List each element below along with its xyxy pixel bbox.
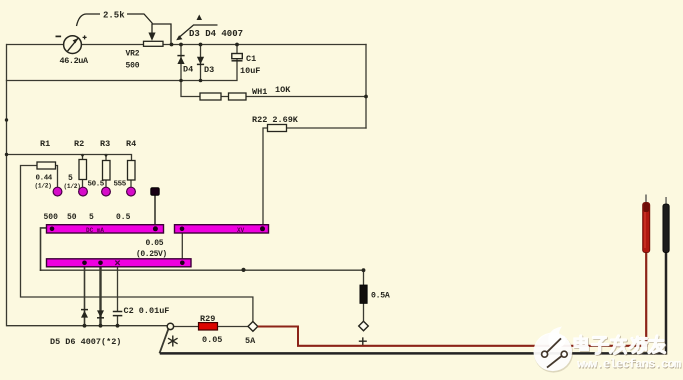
wire fuse horizontal line	[41, 269, 364, 271]
svg-text:0.5A: 0.5A	[371, 292, 390, 301]
wire fuse vertical stubs	[363, 270, 365, 321]
switch wafer bar2 V	[175, 225, 269, 234]
switch wafer bar1 DCmA	[47, 225, 164, 234]
node C2 bottom	[116, 324, 120, 328]
svg-text:50.5: 50.5	[88, 181, 105, 189]
svg-text:50: 50	[67, 213, 77, 222]
svg-text:VR2: VR2	[126, 50, 140, 59]
svg-text:R4: R4	[126, 139, 136, 149]
wire D6 drop	[99, 267, 101, 326]
svg-text:R1: R1	[40, 139, 50, 149]
wire red jumper diamond to red bus	[258, 327, 298, 346]
node WH1 right	[364, 95, 368, 99]
pad switch common (black)	[151, 188, 159, 196]
node junction D4 top	[179, 43, 183, 47]
svg-text:D3 D4 4007: D3 D4 4007	[189, 29, 243, 39]
diode D5	[81, 310, 88, 318]
wire D5 drop	[84, 267, 86, 326]
node junction C1 top	[235, 43, 239, 47]
resistor R3	[88, 139, 111, 189]
wire R network top	[7, 155, 132, 161]
wire R29 line	[174, 326, 248, 328]
wire R3 stubs	[105, 155, 107, 188]
wire bar2 to bar3 drop	[181, 233, 183, 259]
pad R4 terminal	[127, 187, 136, 196]
wire bar1 left to fuse line	[41, 228, 47, 270]
watermark logo circle	[534, 327, 574, 373]
svg-text:0.05: 0.05	[146, 239, 164, 248]
capacitor C2	[113, 306, 170, 316]
resistor R1	[35, 139, 56, 190]
label 2.5k callout	[77, 11, 153, 27]
wire C2 drop	[117, 267, 119, 326]
svg-text:DC mA: DC mA	[86, 227, 104, 234]
node D6 bottom	[99, 324, 103, 328]
svg-text:46.2uA: 46.2uA	[60, 56, 90, 66]
wire left bus vertical to wiper	[7, 45, 168, 326]
svg-text:555: 555	[114, 181, 127, 189]
svg-text:0.5: 0.5	[116, 213, 131, 222]
wire R22 line	[263, 128, 366, 225]
wire right vertical	[365, 45, 367, 129]
diode D3	[197, 57, 214, 75]
resistor WH1 (two boxes) 10K	[200, 85, 291, 100]
wire R1 left to diamond	[21, 166, 253, 322]
wire R1 right	[56, 166, 58, 188]
svg-text:1OK: 1OK	[275, 85, 291, 95]
switch wafer bar3	[47, 259, 192, 267]
pad R3 terminal	[102, 187, 111, 196]
svg-text:0.05: 0.05	[202, 335, 222, 345]
wire wiper lever diagonal	[160, 329, 169, 353]
resistor R29 0.05 (red)	[199, 314, 223, 345]
label plus terminal	[359, 337, 367, 345]
svg-text:0.44: 0.44	[36, 175, 53, 183]
svg-text:XV: XV	[237, 227, 245, 234]
diode D6	[97, 310, 104, 317]
svg-text:C2 0.01uF: C2 0.01uF	[124, 306, 170, 316]
svg-text:5: 5	[89, 213, 94, 222]
node junction D3 bottom	[199, 79, 203, 83]
svg-text:500: 500	[126, 62, 140, 71]
svg-text:WH1: WH1	[252, 87, 267, 97]
svg-text:(0.25V): (0.25V)	[136, 250, 167, 259]
svg-text:D4: D4	[183, 65, 193, 75]
potentiometer VR2 500	[126, 24, 172, 71]
wire D4 branch	[180, 45, 182, 81]
label 0.05 (0.25V)	[136, 239, 167, 259]
svg-text:R29: R29	[200, 314, 215, 324]
svg-text:R2: R2	[74, 139, 84, 149]
connector diamond 5A	[245, 322, 258, 347]
capacitor C1 10uF	[232, 54, 261, 77]
wire D3 branch	[200, 45, 202, 81]
meter M 46.2uA	[56, 35, 90, 66]
svg-text:5: 5	[68, 174, 73, 183]
node left bus dot	[5, 118, 8, 121]
pad R2 terminal	[79, 187, 88, 196]
wire C1 top stub	[236, 45, 238, 54]
node R3 top	[104, 155, 108, 158]
svg-text:(1/2): (1/2)	[35, 183, 52, 190]
node fuse line dot	[241, 268, 245, 272]
resistor R22 2.69K	[252, 115, 299, 132]
node fuse top	[362, 268, 366, 272]
node R2 top	[81, 155, 85, 158]
svg-text:D5 D6 4007(*2): D5 D6 4007(*2)	[50, 337, 121, 347]
switch rotor star mark	[168, 336, 178, 347]
svg-text:D3: D3	[204, 65, 214, 75]
node left bus R network tee	[5, 153, 8, 156]
node junction D3 top	[199, 43, 203, 47]
svg-text:(1/2): (1/2)	[64, 183, 81, 190]
svg-text:R3: R3	[100, 139, 110, 149]
wire R2 stubs	[82, 155, 84, 188]
svg-text:5A: 5A	[245, 336, 256, 346]
fuse 0.5A	[360, 285, 390, 303]
svg-text:500: 500	[44, 213, 59, 222]
resistor R4	[114, 139, 137, 189]
switch rotor pivot	[167, 323, 173, 329]
wire WH1 line	[181, 81, 366, 97]
node junction D4 bottom	[179, 79, 183, 83]
svg-text:2.5k: 2.5k	[103, 11, 125, 21]
probe black (COM)	[663, 197, 669, 253]
svg-text:www.elecfans.com: www.elecfans.com	[578, 358, 682, 372]
wire black bus	[160, 252, 666, 353]
pad R1 terminal	[53, 187, 62, 196]
label D3 D4 4007 callout	[176, 15, 243, 41]
resistor R2	[64, 139, 87, 190]
node junction pot wiper	[170, 43, 174, 47]
probe red (+)	[643, 195, 650, 253]
svg-text:C1: C1	[246, 54, 256, 64]
svg-text:10uF: 10uF	[240, 66, 260, 76]
watermark text dianzifashaoyou	[576, 337, 666, 355]
wire black pad drop	[154, 195, 156, 225]
diode D4	[177, 56, 193, 75]
wire second horizontal (diode/cap bottom)	[7, 60, 238, 81]
svg-text:R22 2.69K: R22 2.69K	[252, 115, 299, 125]
connector diamond fuse output	[359, 321, 369, 331]
wire R4 bottom stub	[130, 180, 132, 188]
wire main top bus	[7, 44, 366, 46]
node D5 bottom	[83, 324, 87, 328]
wire red bus	[297, 252, 646, 346]
label range values 500 50 5 0.5	[44, 213, 131, 222]
